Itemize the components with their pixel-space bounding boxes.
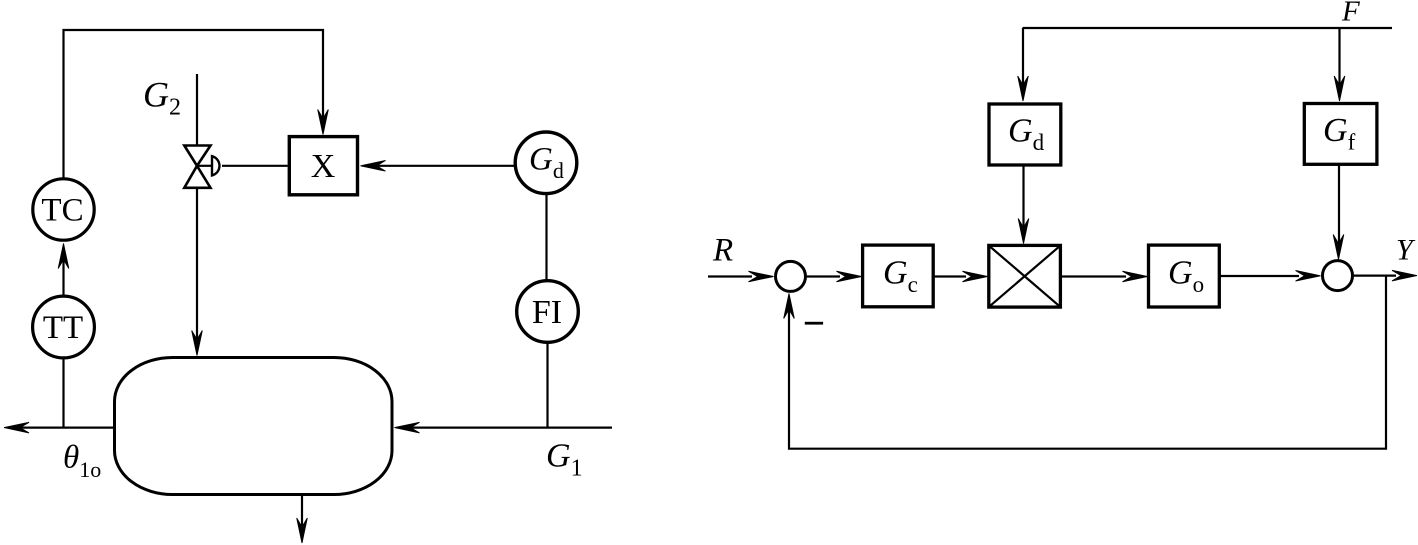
wire FI to inlet line [546, 344, 548, 428]
svg-text:Gf: Gf [1323, 112, 1356, 155]
summing junction 2 [1323, 261, 1353, 291]
svg-text:F: F [1341, 0, 1360, 28]
wire Gd to FI [545, 195, 547, 280]
tank bottom outlet arrow [297, 494, 308, 543]
control valve [184, 146, 210, 188]
svg-text:Gd: Gd [1008, 113, 1045, 156]
minus sign [805, 322, 823, 325]
wire Gd to mixer X with arrow [361, 161, 515, 172]
wire TC top to mixer X (over the top) [64, 30, 324, 178]
wire valve apex to actuator [197, 165, 212, 167]
instrument TT [33, 296, 95, 358]
output Y line with arrow [1354, 270, 1418, 281]
wire Go to summing junction 2 with arrow [1219, 271, 1320, 282]
svg-text:Y: Y [1396, 234, 1416, 267]
input R arrow [708, 271, 774, 282]
svg-text:G2: G2 [143, 75, 181, 121]
wire F to block Gd with arrow [1018, 28, 1029, 101]
wire sum1 to block Gc with arrow [807, 271, 862, 282]
block Gf [1304, 104, 1377, 165]
svg-text:R: R [712, 233, 733, 269]
instrument FI [517, 281, 579, 343]
mixer block X [289, 137, 357, 195]
stream G2 line above valve [196, 74, 198, 145]
wire block Gf to summing junction 2 with arrow [1333, 164, 1344, 259]
svg-text:G1: G1 [546, 438, 583, 482]
wire TT to outlet line [62, 360, 64, 428]
svg-text:X: X [311, 148, 336, 185]
disturbance line from F [1023, 27, 1393, 29]
wire valve to tank with arrow [192, 188, 203, 356]
inlet G1 line with arrow into tank [395, 422, 613, 433]
instrument TC [33, 179, 94, 240]
wire actuator to mixer X [222, 165, 288, 167]
wire multiplier to block Go with arrow [1060, 271, 1147, 282]
block Gd [989, 104, 1061, 165]
svg-text:θ1o: θ1o [63, 440, 101, 483]
wire Gc to multiplier with arrow [933, 271, 987, 282]
multiplier block (box with X cross) [989, 245, 1061, 307]
instrument Gd [515, 132, 577, 194]
tank vessel [115, 358, 393, 495]
svg-text:TC: TC [41, 193, 83, 229]
valve actuator (half-circle) [212, 156, 219, 175]
svg-text:Gc: Gc [883, 255, 918, 298]
svg-text:Gd: Gd [529, 142, 564, 184]
summing junction 1 [776, 261, 806, 291]
svg-text:TT: TT [43, 310, 83, 346]
wire block Gd to multiplier with arrow [1018, 166, 1029, 244]
wire F to block Gf with arrow [1334, 28, 1345, 101]
arrow TT to TC [58, 244, 69, 296]
svg-text:Go: Go [1168, 255, 1204, 298]
block Gc [863, 245, 934, 307]
block Go [1149, 245, 1220, 307]
svg-text:FI: FI [532, 294, 562, 331]
feedback wire [784, 276, 1386, 449]
arrow into mixer X top [318, 110, 329, 135]
outlet line with left arrow [4, 422, 114, 433]
